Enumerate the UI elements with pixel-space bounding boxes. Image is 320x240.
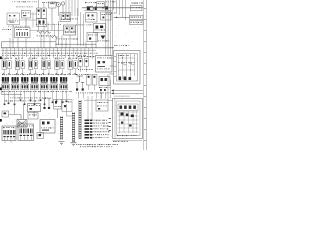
washer pump symbol (54, 100, 62, 119)
wire upper-left connections (13, 14, 37, 48)
connector pin numbers row (2, 91, 111, 93)
bus verticals right-center (106, 0, 113, 56)
wire stubs right-center below relays (79, 93, 106, 99)
wire from heater to ladder (67, 92, 102, 117)
wire taps from bus (3, 48, 93, 59)
wire horizontal mid-upper (30, 16, 64, 44)
relay box lower middle (40, 120, 55, 134)
small relay pair right of row (78, 56, 94, 72)
sensor T-symbols right of relays (76, 74, 89, 91)
legend caption lines (76, 144, 118, 147)
relay K1 (2, 77, 10, 90)
box above motor (28, 113, 38, 120)
connector strip ladder 2 (71, 112, 77, 146)
relay small box mid right (87, 33, 98, 42)
junction box mid lower (96, 100, 108, 111)
fuse box outer lower right (113, 99, 143, 139)
fold mark 3 (0, 119, 2, 122)
solenoid box right-center (101, 12, 112, 20)
pump pair symbols lower middle (43, 99, 50, 109)
coil secondary box (37, 19, 47, 27)
wire drops to main bus (10, 27, 96, 48)
switch bank S4 (42, 58, 51, 75)
wire main bus (1, 47, 114, 49)
relay box R1 top right (131, 3, 143, 11)
relay K5 (40, 77, 48, 90)
relay K4 (31, 77, 39, 90)
ECU inner box (117, 54, 138, 82)
fuse box contents (113, 104, 143, 141)
ECU outer box (114, 51, 141, 85)
fold mark 1 (0, 57, 2, 60)
fusible link label box FL2 (130, 20, 144, 24)
fusible link label box FL1 (130, 15, 144, 19)
relay K3 (21, 77, 29, 90)
junction dots above bus (55, 44, 66, 45)
wire harness verticals upper middle (64, 0, 78, 19)
wire secondary bus (1, 49, 96, 51)
blower motor M1 (17, 120, 27, 128)
ground triangle near starter (98, 36, 109, 42)
labels above ECU box (114, 44, 129, 47)
connector strip ladder 3 (79, 100, 82, 139)
relay K7 (60, 77, 68, 90)
distributor cap (49, 2, 57, 16)
condenser cluster (60, 13, 71, 22)
fusible link drop wires (114, 0, 126, 20)
wire lower-left runs (9, 104, 24, 120)
wires into legend area (84, 96, 96, 120)
small box under relay (37, 133, 44, 139)
battery label box (97, 2, 109, 10)
switch bank S1 (2, 58, 12, 75)
wire verticals left of regulator (76, 8, 92, 46)
small outline box pair right of sensors (87, 75, 97, 91)
gauge symbols top middle (57, 2, 65, 16)
heater control box (96, 56, 113, 73)
connector block C1 (2, 126, 16, 143)
diode box lower left (2, 111, 9, 117)
ignition coil T1 (37, 0, 47, 30)
resistor block upper middle (64, 25, 76, 35)
key switch box (22, 11, 31, 19)
ignition switch box (15, 28, 31, 38)
switch bank S3 (28, 58, 37, 75)
left small specks near ignition (2, 28, 11, 31)
switch bank S5 (55, 58, 65, 75)
relay K2 (11, 77, 19, 90)
wiper switch outline (62, 100, 72, 112)
switch bank S2 (15, 58, 24, 75)
wire arrows to ECU (111, 89, 143, 96)
starter labels top right (106, 1, 117, 13)
wire fine verticals upper-mid (33, 12, 55, 36)
fuse box inner border (115, 99, 140, 139)
relay row labels (2, 73, 76, 76)
fuse symbols row upper middle-left (37, 31, 54, 37)
fuse glyphs x50 upper (50, 35, 58, 37)
ignition module cluster (99, 77, 110, 92)
ECU internal components (110, 54, 136, 80)
upper scattered label specks (8, 1, 78, 39)
wire link box to bus right (108, 74, 113, 131)
caption under fuse box (113, 140, 128, 143)
top labels left of coil (42, 1, 57, 4)
fuse row labels under bus (2, 53, 97, 56)
wire mid horizontal left (1, 88, 22, 94)
connector block C2 (18, 124, 34, 141)
wiring code legend text block (85, 120, 110, 139)
wire left feeder horizontal (2, 42, 57, 48)
alternator symbol (85, 2, 97, 10)
wire main feed top horizontal (82, 7, 143, 11)
switch bank S6 (68, 58, 77, 75)
wire drops below relays (4, 91, 68, 106)
relay K6 (50, 77, 58, 90)
starter motor cluster (94, 24, 106, 33)
voltage regulator box (86, 13, 98, 23)
wire to fusible links (114, 17, 130, 18)
resistor block (28, 104, 41, 118)
wire ruler line right inner with ticks (143, 0, 145, 150)
scan noise speckle (3, 7, 139, 139)
combination switch box (7, 13, 20, 25)
wire main bus upper (56, 43, 96, 45)
fold mark 2 (0, 88, 2, 91)
connector strip ladder 1 (59, 116, 65, 145)
wire ruler line right outer (146, 0, 148, 150)
